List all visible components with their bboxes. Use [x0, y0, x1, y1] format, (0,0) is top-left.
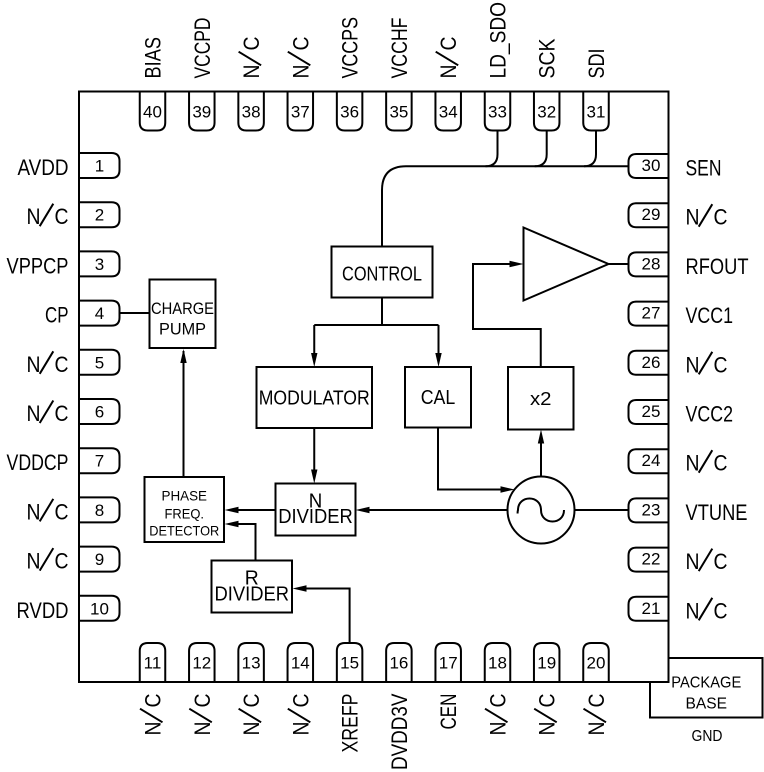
svg-text:C: C	[714, 352, 728, 377]
wire MODULATOR to N divider (arrow down)	[311, 428, 317, 484]
pin 11 (N/C) bottom	[140, 643, 166, 736]
svg-text:C: C	[288, 693, 313, 707]
svg-text:CHARGE: CHARGE	[151, 299, 214, 318]
svg-text:N: N	[27, 401, 41, 426]
svg-text:CP: CP	[45, 303, 69, 328]
svg-text:VPPCP: VPPCP	[7, 253, 69, 278]
block R DIVIDER	[212, 561, 293, 613]
svg-text:21: 21	[642, 599, 661, 618]
pin 24 (N/C) right	[629, 449, 728, 476]
svg-text:SEN: SEN	[686, 156, 722, 181]
svg-text:17: 17	[439, 654, 458, 673]
package base pad	[650, 658, 763, 718]
svg-text:DETECTOR: DETECTOR	[149, 522, 219, 538]
pin 27 (VCC1) right	[629, 302, 734, 329]
svg-text:26: 26	[642, 353, 661, 372]
svg-text:C: C	[714, 451, 728, 476]
pin 34 (N/C) top	[435, 36, 461, 130]
svg-text:XREFP: XREFP	[338, 694, 363, 753]
svg-text:C: C	[714, 598, 728, 623]
block CAL	[405, 367, 471, 428]
svg-text:VCC2: VCC2	[686, 402, 734, 427]
svg-text:BIAS: BIAS	[141, 37, 166, 79]
block N DIVIDER	[276, 484, 356, 536]
wire R divider to phase freq detector (arrow left)	[225, 521, 256, 561]
wire x2 to amplifier input (feedback, arrow right)	[473, 261, 541, 367]
wire pin 4 (CP) to charge pump	[120, 312, 150, 314]
svg-text:4: 4	[95, 304, 104, 323]
pin 16 (DVDD3V) bottom	[386, 643, 412, 770]
svg-text:RVDD: RVDD	[17, 598, 69, 623]
svg-text:3: 3	[95, 255, 104, 274]
svg-text:C: C	[239, 36, 264, 50]
svg-text:5: 5	[95, 353, 104, 372]
block CONTROL	[332, 247, 433, 298]
svg-text:11: 11	[144, 654, 162, 673]
block x2 frequency doubler	[508, 367, 574, 430]
svg-text:13: 13	[242, 654, 261, 673]
svg-text:39: 39	[192, 103, 211, 122]
svg-text:N: N	[686, 549, 700, 574]
block PHASE FREQ. DETECTOR	[145, 477, 225, 542]
pin 26 (N/C) right	[629, 351, 728, 378]
pin 7 (VDDCP) left	[7, 448, 120, 475]
svg-text:N: N	[190, 722, 215, 736]
pin 12 (N/C) bottom	[189, 643, 215, 736]
pin 22 (N/C) right	[629, 548, 728, 575]
pin 18 (N/C) bottom	[485, 643, 511, 736]
svg-text:C: C	[436, 36, 461, 50]
pin 29 (N/C) right	[629, 203, 728, 230]
pin 38 (N/C) top	[238, 36, 264, 130]
pin 33 (LD_SDO) top	[485, 2, 511, 131]
pin 30 (SEN) right	[629, 154, 722, 181]
svg-text:33: 33	[488, 103, 507, 122]
wire pin 33 (LD_SDO) to bus	[486, 131, 498, 167]
chip package outline	[79, 92, 669, 683]
svg-text:30: 30	[642, 156, 661, 175]
svg-text:7: 7	[95, 452, 104, 471]
pin 23 (VTUNE) right	[629, 498, 748, 525]
svg-text:C: C	[190, 693, 215, 707]
svg-text:25: 25	[642, 402, 661, 421]
svg-text:6: 6	[95, 403, 104, 422]
svg-text:x2: x2	[530, 389, 552, 409]
svg-text:VCC1: VCC1	[686, 303, 734, 328]
oscillator VCO circle	[508, 477, 575, 544]
pin 10 (RVDD) left	[17, 596, 120, 623]
svg-text:PUMP: PUMP	[159, 319, 206, 338]
svg-text:VCCPS: VCCPS	[338, 17, 363, 79]
pin 17 (CEN) bottom	[435, 643, 461, 730]
svg-text:C: C	[55, 401, 69, 426]
svg-text:N: N	[27, 204, 41, 229]
pin 39 (VCCPD) top	[189, 18, 215, 131]
svg-text:N: N	[27, 499, 41, 524]
svg-text:PACKAGE: PACKAGE	[671, 675, 741, 692]
svg-text:N: N	[27, 549, 41, 574]
wire pin 23 (VTUNE) to VCO	[575, 509, 629, 511]
pin 9 (N/C) left	[27, 547, 120, 574]
wire N divider to phase freq detector (arrow left)	[225, 507, 276, 513]
svg-text:GND: GND	[692, 728, 723, 745]
svg-text:N: N	[535, 722, 560, 736]
svg-text:28: 28	[642, 254, 661, 273]
svg-text:VDDCP: VDDCP	[7, 450, 69, 475]
svg-text:19: 19	[537, 654, 556, 673]
svg-text:N: N	[686, 598, 700, 623]
svg-text:DIVIDER: DIVIDER	[278, 506, 353, 528]
svg-text:C: C	[714, 205, 728, 230]
svg-text:CONTROL: CONTROL	[342, 264, 422, 286]
svg-text:N: N	[27, 352, 41, 377]
label PACKAGE BASE	[671, 675, 741, 713]
pin 8 (N/C) left	[27, 497, 120, 524]
pin 4 (CP) left	[45, 301, 120, 328]
block MODULATOR	[257, 367, 373, 428]
wire phase freq detector to charge pump (arrow up)	[180, 349, 186, 477]
svg-text:20: 20	[587, 654, 606, 673]
pin 5 (N/C) left	[27, 350, 120, 377]
pin 13 (N/C) bottom	[238, 643, 264, 736]
wire VCO to x2 (arrow up)	[538, 430, 544, 477]
svg-text:34: 34	[439, 103, 458, 122]
svg-text:31: 31	[587, 103, 606, 122]
pin 14 (N/C) bottom	[288, 643, 314, 736]
svg-text:1: 1	[95, 157, 104, 176]
svg-text:40: 40	[143, 103, 162, 122]
pin 21 (N/C) right	[629, 597, 728, 624]
svg-text:C: C	[141, 693, 166, 707]
pin 6 (N/C) left	[27, 399, 120, 426]
svg-text:C: C	[535, 693, 560, 707]
svg-text:LD_SDO: LD_SDO	[486, 2, 511, 79]
svg-text:16: 16	[389, 654, 408, 673]
svg-text:27: 27	[642, 304, 661, 323]
svg-text:C: C	[55, 352, 69, 377]
pin 31 (SDI) top	[583, 49, 609, 131]
svg-text:8: 8	[95, 501, 104, 520]
svg-text:14: 14	[291, 654, 310, 673]
svg-text:AVDD: AVDD	[18, 155, 69, 180]
svg-text:10: 10	[90, 599, 109, 618]
svg-text:32: 32	[537, 103, 556, 122]
svg-text:DVDD3V: DVDD3V	[387, 693, 412, 770]
wire serial bus to CONTROL (from pins 30-33)	[382, 166, 629, 246]
wire pin 32 (SCK) to bus	[535, 131, 547, 167]
pin 36 (VCCPS) top	[337, 17, 363, 131]
pin 1 (AVDD) left	[18, 153, 120, 180]
svg-text:N: N	[436, 65, 461, 79]
svg-text:CAL: CAL	[421, 387, 456, 409]
svg-text:18: 18	[488, 654, 507, 673]
svg-text:36: 36	[340, 103, 359, 122]
svg-text:C: C	[288, 36, 313, 50]
wire pin 31 (SDI) to bus	[584, 131, 596, 167]
svg-text:23: 23	[642, 500, 661, 519]
svg-text:N: N	[686, 352, 700, 377]
svg-text:CEN: CEN	[436, 694, 461, 730]
wire amplifier to pin 28 (RFOUT)	[609, 263, 629, 265]
svg-text:C: C	[239, 693, 264, 707]
svg-text:C: C	[714, 549, 728, 574]
pin 35 (VCCHF) top	[386, 18, 412, 131]
pin 2 (N/C) left	[27, 202, 120, 229]
svg-text:VCCPD: VCCPD	[190, 18, 215, 79]
svg-text:35: 35	[389, 103, 408, 122]
svg-text:24: 24	[642, 451, 661, 470]
block CHARGE PUMP	[150, 280, 216, 349]
pin 32 (SCK) top	[534, 38, 560, 130]
svg-text:9: 9	[95, 550, 104, 569]
pin 20 (N/C) bottom	[583, 643, 609, 736]
svg-text:29: 29	[642, 205, 661, 224]
svg-text:12: 12	[192, 654, 211, 673]
pin 25 (VCC2) right	[629, 400, 734, 427]
svg-text:C: C	[584, 693, 609, 707]
svg-text:MODULATOR: MODULATOR	[259, 388, 370, 410]
svg-text:37: 37	[291, 103, 310, 122]
wire pin 15 (XREFP) to R divider (arrow left)	[293, 585, 350, 643]
sine wave symbol inside VCO	[518, 499, 564, 522]
wire CONTROL to CAL (arrow down)	[435, 325, 441, 367]
svg-text:RFOUT: RFOUT	[686, 254, 749, 279]
svg-text:15: 15	[340, 654, 359, 673]
amplifier (output buffer triangle)	[524, 228, 609, 301]
wire CAL to VCO (arrow right)	[438, 428, 515, 493]
wire VCO to N divider (arrow left)	[356, 507, 508, 513]
pin 40 (BIAS) top	[140, 37, 166, 131]
pin 19 (N/C) bottom	[534, 643, 560, 736]
svg-text:DIVIDER: DIVIDER	[215, 584, 290, 606]
svg-text:N: N	[239, 722, 264, 736]
svg-text:SCK: SCK	[535, 38, 560, 78]
svg-text:22: 22	[642, 550, 661, 569]
pin 15 (XREFP) bottom	[337, 643, 363, 753]
svg-text:38: 38	[242, 103, 261, 122]
svg-text:C: C	[55, 499, 69, 524]
svg-text:N: N	[486, 722, 511, 736]
wire CONTROL to MODULATOR (arrow down)	[311, 298, 438, 368]
svg-text:PHASE: PHASE	[162, 487, 208, 503]
svg-text:N: N	[584, 722, 609, 736]
svg-text:C: C	[55, 549, 69, 574]
svg-text:SDI: SDI	[584, 49, 609, 79]
svg-text:N: N	[686, 451, 700, 476]
svg-text:N: N	[288, 65, 313, 79]
svg-text:BASE: BASE	[686, 695, 728, 712]
svg-text:2: 2	[95, 206, 104, 225]
svg-text:FREQ.: FREQ.	[165, 505, 205, 521]
svg-text:C: C	[486, 693, 511, 707]
svg-text:N: N	[288, 722, 313, 736]
pin 37 (N/C) top	[288, 36, 314, 130]
svg-text:N: N	[141, 722, 166, 736]
svg-text:N: N	[239, 65, 264, 79]
svg-text:C: C	[55, 204, 69, 229]
pin 3 (VPPCP) left	[7, 251, 120, 278]
svg-text:VTUNE: VTUNE	[686, 500, 748, 525]
svg-text:VCCHF: VCCHF	[387, 18, 412, 79]
svg-text:N: N	[686, 205, 700, 230]
pin 28 (RFOUT) right	[629, 252, 749, 279]
